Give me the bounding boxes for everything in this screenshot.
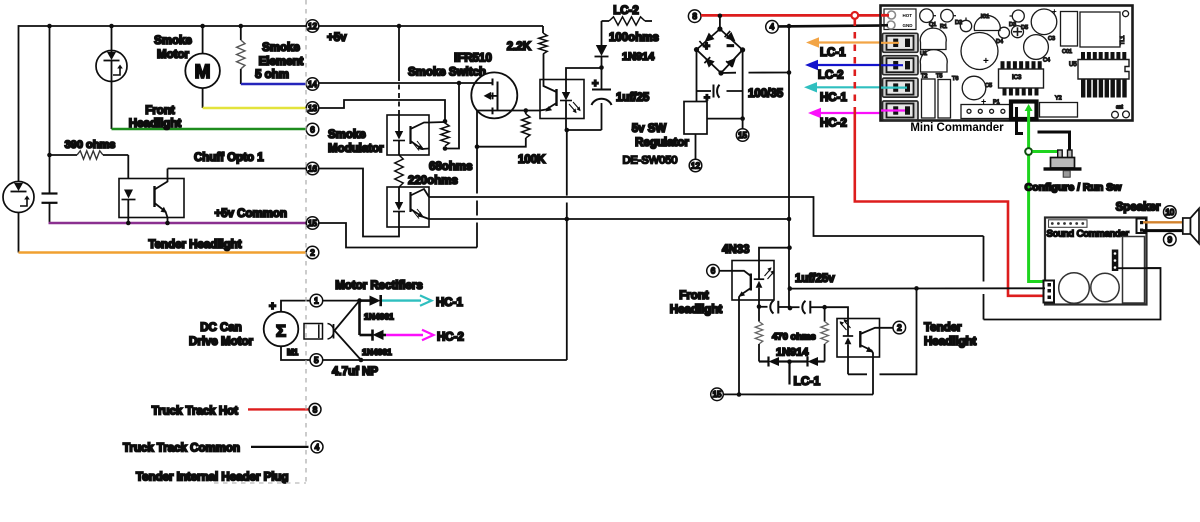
wire truck track hot red [248, 408, 309, 410]
opto U-smoke-mod-1 LED [398, 114, 400, 131]
board T2 T5 rects [922, 79, 936, 118]
svg-text:Element: Element [259, 56, 304, 68]
svg-text:IFR510: IFR510 [454, 53, 492, 65]
svg-text:100ohms: 100ohms [609, 32, 659, 44]
wire long collector bus [429, 197, 984, 236]
terminal pin 9 [1164, 233, 1177, 246]
wire mosfet bottom [477, 110, 540, 112]
connector LC-2 jack [883, 56, 919, 75]
svg-text:Smoke: Smoke [154, 35, 192, 47]
svg-text:Tender Headlight: Tender Headlight [148, 239, 241, 251]
board Sound Commander outline [1045, 218, 1147, 305]
svg-text:DE-SW050: DE-SW050 [622, 155, 677, 167]
capacitor C-left [42, 194, 58, 203]
bridge diode TR [726, 32, 736, 42]
arrow HC-2 [819, 112, 902, 114]
svg-text:+: + [1052, 7, 1057, 16]
junction dot caps right [822, 305, 827, 310]
svg-text:LC-2: LC-2 [613, 5, 639, 17]
board SC cap circles [1059, 273, 1090, 304]
board config connector [1011, 102, 1037, 120]
arrow LC-1 [817, 41, 902, 43]
svg-text:Regulator: Regulator [635, 137, 689, 149]
opto U-chuff LED [124, 190, 133, 199]
resistor R-390-ohms [49, 26, 51, 194]
svg-text:HC-1: HC-1 [436, 297, 463, 309]
board cap C3 [1031, 9, 1057, 35]
board SC speaker connector [1137, 219, 1147, 234]
terminal pin 2 [306, 246, 319, 259]
connector HC-2 jack [883, 101, 919, 120]
junction dot x567 y219 [565, 217, 570, 222]
terminal pin 1 [310, 294, 323, 307]
junction dot rail y288 [788, 286, 793, 291]
wire smoke switch common drop [566, 130, 568, 196]
board dome U1b [920, 50, 947, 72]
svg-text:HC-2: HC-2 [437, 332, 464, 344]
opto U-chuff phototransistor [153, 186, 155, 207]
junction dot 68ohm top [443, 119, 448, 124]
wire pin13 branch [319, 100, 445, 121]
junction dot LC1 [787, 359, 792, 364]
terminal pin 14 [306, 78, 319, 91]
wire front-headlight drop [111, 81, 113, 129]
wire +5v top rail [19, 25, 307, 27]
svg-text:LC-1: LC-1 [820, 47, 846, 59]
svg-text:TL1: TL1 [1120, 36, 1126, 45]
junction dot A [47, 24, 52, 29]
wire 390ohm to chuff opto [127, 155, 129, 179]
board dome U1a [920, 28, 946, 49]
capacitor C-1uf25v-A [759, 306, 768, 308]
arrow LC-2 [816, 64, 902, 66]
svg-text:D5: D5 [1021, 25, 1028, 31]
terminal pin 10 [1164, 206, 1177, 219]
opto U-smoke-mod-1 phototransistor [409, 126, 411, 144]
capacitor C-1uf25v-B [790, 306, 800, 308]
svg-text:D4: D4 [996, 39, 1003, 45]
svg-text:470 ohms: 470 ohms [772, 332, 816, 343]
capacitor C-1uf25 [601, 68, 603, 90]
opto U3 phototransistor [555, 89, 557, 106]
svg-text:−: − [727, 41, 734, 53]
svg-text:4: 4 [770, 23, 775, 32]
resistor R-68-ohms [441, 123, 449, 146]
terminal pin 12 [306, 20, 319, 33]
board cap D3 [1012, 10, 1024, 22]
opto U-chuff box [119, 179, 184, 218]
wire pin14 to gate [319, 82, 459, 84]
svg-text:Front: Front [679, 290, 709, 302]
svg-text:2: 2 [310, 248, 315, 257]
terminal pin 13 [306, 102, 319, 115]
svg-text:100K: 100K [518, 154, 546, 166]
svg-text:HC-1: HC-1 [820, 92, 847, 104]
junction dot led cathode y306 [757, 304, 762, 309]
wire cap diagonals [335, 301, 360, 331]
wire truck track common [251, 446, 309, 448]
svg-text:M: M [195, 62, 211, 83]
svg-text:GND: GND [903, 23, 914, 28]
board cap D4 D5 [999, 27, 1010, 38]
svg-text:T6: T6 [952, 76, 958, 82]
opto U-smoke-mod-1 box [387, 115, 429, 155]
board SC left connector [1044, 281, 1055, 303]
svg-text:HOT: HOT [903, 13, 913, 18]
board power input header HOT GND [884, 9, 916, 30]
svg-text:15: 15 [308, 219, 317, 228]
opto U3 LED [565, 80, 567, 93]
svg-text:T2: T2 [921, 74, 927, 80]
svg-text:Smoke: Smoke [328, 129, 366, 141]
wire overlays into connectors [881, 14, 889, 17]
connector LC-1 jack [883, 33, 919, 52]
smoke motor M circle [185, 54, 220, 89]
wire green to switch [1032, 150, 1060, 153]
svg-text:Motor: Motor [157, 49, 189, 61]
opto U-smoke-mod-2 LED [398, 187, 400, 202]
junction dot y288 x916 [914, 286, 919, 291]
wire red feed solid [855, 110, 1045, 296]
junction dot B [109, 24, 114, 29]
terminal pin 4 bottom [311, 441, 323, 453]
svg-text:9: 9 [1168, 235, 1173, 244]
board cap D1 [960, 20, 971, 31]
wire +5v to 2.2K [319, 25, 543, 27]
svg-text:Truck Track Hot: Truck Track Hot [152, 406, 238, 418]
wire header bus overlay [1117, 267, 1161, 269]
board big cap C2 [961, 33, 998, 70]
wire +5v common purple [49, 222, 307, 224]
wire caps to tender opto [825, 307, 848, 318]
red feed node [851, 12, 858, 19]
terminal pin 8 top [688, 10, 701, 23]
wire track common black [779, 25, 891, 26]
capacitor C-4.7uf [304, 324, 323, 340]
bridge rectifier BR1 [697, 29, 743, 73]
LED D-front-headlight symbol [96, 26, 127, 82]
svg-text:LC-1: LC-1 [794, 374, 821, 388]
resistor R-470-right [824, 307, 826, 321]
wire smoke element blue to pin 14 [241, 83, 306, 86]
mosfet Q-IFR510 [471, 72, 517, 118]
speaker icon [1183, 218, 1191, 234]
junction dot 1N914 cathode [599, 65, 604, 70]
wire config switch black [1038, 132, 1070, 152]
svg-text:68ohms: 68ohms [429, 161, 472, 173]
svg-text:5 ohm: 5 ohm [255, 69, 289, 81]
bridge diode BR [727, 58, 737, 68]
terminal pin 8 bottom [309, 403, 321, 415]
svg-text:4N33: 4N33 [722, 244, 750, 256]
regulator U-DE-SW050 box [684, 102, 707, 135]
board SC 3pin header [1112, 250, 1119, 272]
svg-text:C3: C3 [1048, 36, 1055, 42]
capacitor C-100-35 [697, 90, 712, 92]
junction dot x567 y130 [565, 128, 570, 133]
svg-text:Motor Rectifiers: Motor Rectifiers [335, 280, 423, 292]
wire long emitter bus [429, 218, 789, 220]
junction dot rail y72 [787, 70, 792, 75]
resistor R-220-ohms [395, 155, 403, 187]
bridge diode TL [705, 33, 715, 43]
wire HC2 branch [358, 301, 361, 335]
resistor R-100K [525, 111, 527, 115]
board cap C01 rect [1061, 12, 1078, 47]
wire pin6 to 4N33 [720, 270, 733, 272]
wire bridge bottom to rail [721, 72, 736, 74]
diode D-1N914-LC1-a [767, 357, 769, 367]
wire bridge left rail [696, 50, 698, 102]
svg-text:HC-2: HC-2 [820, 118, 847, 130]
svg-text:5: 5 [314, 356, 319, 365]
diode D-1N914-LC1-b [790, 360, 808, 362]
resistor R-LC2-100ohms [602, 20, 610, 22]
svg-text:15: 15 [738, 131, 747, 140]
svg-text:1uf/25v: 1uf/25v [795, 273, 835, 285]
svg-text:Tender Internal Header Plug: Tender Internal Header Plug [136, 472, 289, 484]
wire speaker black [1143, 229, 1183, 232]
wire tender led return [880, 288, 917, 374]
resistor R-2.2K [542, 26, 544, 33]
svg-text:12: 12 [691, 161, 700, 170]
junction dot rail y219 [787, 217, 792, 222]
wire track hot red [701, 14, 890, 17]
svg-text:220ohms: 220ohms [408, 175, 458, 187]
svg-text:1N4001: 1N4001 [362, 347, 392, 357]
wire pin15 to mosfet source [319, 223, 477, 248]
terminal pin 2 tender [893, 321, 906, 334]
board cap C4 [1024, 35, 1049, 60]
terminal pin 6 front [707, 265, 720, 278]
wire smoke motor yellow to pin 13 [203, 107, 306, 109]
wire tender led cathode [847, 357, 849, 374]
wire pin16 to opto2 LED [319, 169, 399, 237]
dashed boundary tender plug [305, 0, 307, 486]
junction dot 390ohm branch [47, 153, 52, 158]
svg-text:16: 16 [308, 164, 317, 173]
wire chuff opto 1 to pin 16 [168, 168, 307, 170]
opto U-4N33 LED [758, 261, 760, 280]
svg-text:1uf/25: 1uf/25 [616, 92, 650, 104]
svg-text:Speaker: Speaker [1116, 202, 1161, 214]
junction dot emitter y394 [737, 392, 742, 397]
wire 1uf bus to sound commander [790, 287, 1045, 289]
svg-text:IC1: IC1 [981, 14, 990, 20]
svg-text:4.7uf NP: 4.7uf NP [332, 366, 378, 378]
board ant holes [1112, 111, 1119, 118]
wire tender headlight orange [19, 251, 307, 253]
opto U-tender box [837, 319, 880, 358]
arrow HC-1 [815, 86, 902, 88]
svg-text:Headlight: Headlight [924, 336, 977, 348]
wire bridge right rail [742, 50, 744, 129]
wire front headlight green [112, 128, 307, 130]
smoke motor M1 drop wire [202, 26, 204, 54]
connector HC-1 jack [883, 78, 919, 97]
arrow HC-1 motor [382, 299, 421, 301]
svg-text:14: 14 [308, 80, 317, 89]
svg-text:12: 12 [308, 22, 317, 31]
svg-text:100/35: 100/35 [748, 88, 784, 100]
svg-text:IC3: IC3 [1012, 75, 1022, 81]
svg-text:Q1: Q1 [929, 22, 936, 28]
terminal pin 6 [306, 123, 319, 136]
svg-text:Modulator: Modulator [328, 143, 384, 155]
svg-text:+: + [703, 39, 710, 53]
board IC1 dome [974, 16, 1000, 31]
svg-text:Chuff Opto 1: Chuff Opto 1 [194, 152, 264, 164]
svg-text:Headlight: Headlight [670, 304, 723, 316]
wire speaker orange [1143, 221, 1183, 223]
junction dot motor bottom [359, 358, 364, 363]
wire pin15 bottom [723, 393, 873, 395]
opto U-tender LED [847, 319, 849, 337]
board IC3 chip [1001, 61, 1005, 69]
wire opto U3 LED cathode [566, 119, 602, 131]
svg-text:10: 10 [1165, 208, 1174, 217]
wire left vertical rail [18, 25, 20, 252]
wire config black stub [1017, 107, 1024, 134]
smoke motor bottom lead [202, 88, 204, 108]
svg-text:T5: T5 [936, 74, 942, 80]
svg-text:6: 6 [310, 125, 315, 134]
junction dot chuff LED cathode [126, 221, 131, 226]
LED D-tender-headlight symbol [3, 182, 34, 213]
green node ring [1025, 148, 1032, 155]
wire 4N33 collector feed [759, 248, 790, 261]
svg-text:4: 4 [315, 443, 320, 452]
svg-text:8: 8 [313, 405, 318, 414]
board transistor Q2 [941, 9, 954, 22]
junction dot chuff emitter [165, 221, 170, 226]
diode D-1N4001-HC2 [371, 330, 374, 341]
terminal pin 12 regulator [689, 159, 702, 172]
wire LC-1 stub [788, 362, 790, 385]
svg-text:13: 13 [308, 104, 317, 113]
svg-text:U5: U5 [1069, 62, 1077, 68]
wire LC1 diode row [759, 360, 769, 362]
svg-text:+: + [269, 299, 276, 313]
svg-text:C5: C5 [985, 83, 992, 89]
svg-text:+5v Common: +5v Common [214, 208, 287, 220]
wire 4N33 emitter drop [738, 300, 740, 395]
board hole top right [1123, 11, 1129, 17]
svg-text:D3: D3 [1009, 22, 1016, 28]
junction dot D [239, 24, 244, 29]
board transformer T1 [1080, 12, 1120, 47]
opto U-tender phototransistor [859, 331, 861, 348]
wire config green [1029, 109, 1047, 282]
svg-text:P1: P1 [993, 100, 1000, 106]
opto U-4N33 box [732, 261, 774, 301]
board Y2 rect [1040, 103, 1078, 118]
junction dot bridge top [718, 14, 723, 19]
svg-text:C01: C01 [1062, 49, 1072, 55]
junction dot rail y247 [787, 245, 792, 250]
junction dot C [200, 24, 205, 29]
junction dot rail y308 [788, 306, 793, 311]
wire common rail [788, 26, 790, 308]
svg-text:1N4001: 1N4001 [364, 312, 394, 322]
svg-text:15: 15 [713, 390, 722, 399]
svg-text:Y2: Y2 [1055, 96, 1062, 102]
svg-text:ant: ant [1116, 105, 1124, 111]
junction dot mosfet drain [524, 108, 529, 113]
terminal pin 16 [306, 162, 319, 175]
terminal pin 15 [306, 217, 319, 230]
junction dot gate [457, 81, 462, 86]
svg-text:C4: C4 [1043, 58, 1050, 64]
svg-text:R1: R1 [940, 24, 947, 30]
terminal pin 4 top [766, 21, 779, 34]
svg-text:2.2K: 2.2K [507, 41, 532, 53]
svg-text:+5v: +5v [327, 32, 347, 44]
svg-text:Drive Motor: Drive Motor [189, 336, 253, 348]
opto U-smoke-mod-2 phototransistor [409, 192, 411, 212]
svg-text:390 ohms: 390 ohms [65, 139, 116, 151]
opto U3 box [540, 80, 584, 119]
arrow HC-2 motor [386, 334, 423, 336]
board SC right rect [1123, 237, 1145, 304]
svg-text:DC Can: DC Can [200, 322, 242, 334]
svg-text:8: 8 [692, 12, 697, 21]
svg-text:Smoke Switch: Smoke Switch [408, 67, 486, 79]
diode D-1N914-top [601, 21, 603, 45]
svg-text:Truck Track Common: Truck Track Common [123, 443, 240, 455]
opto U-4N33 phototransistor [750, 274, 752, 291]
svg-text:M1: M1 [287, 348, 299, 357]
wire motor bottom lead [281, 346, 567, 360]
board P1 header [961, 105, 1012, 119]
svg-text:1: 1 [314, 297, 319, 306]
svg-text:Mini Commander: Mini Commander [910, 122, 1004, 134]
resistor R-470-left [758, 307, 760, 322]
junction dot source node [475, 144, 480, 149]
wire red feed dashed [853, 20, 856, 111]
svg-text:+: + [983, 56, 989, 67]
terminal pin 15 bottom [711, 388, 724, 401]
wire opto U3 LED anode [566, 68, 602, 80]
svg-text:Smoke: Smoke [262, 42, 300, 54]
svg-text:Sound Commander: Sound Commander [1047, 229, 1129, 240]
terminal pin 15 regulator [736, 129, 749, 142]
board transistor Q1 [920, 9, 934, 23]
board SC header row [1049, 220, 1088, 228]
board Mini Commander outline [881, 6, 1133, 121]
svg-text:Σ: Σ [276, 322, 286, 341]
junction dot 68ohm bottom [443, 146, 448, 151]
svg-text:Headlight: Headlight [129, 118, 182, 130]
svg-text:1N914: 1N914 [776, 347, 809, 359]
terminal pin 5 [310, 354, 323, 367]
diode D-1N4001-HC1 [360, 299, 370, 302]
wire motor top lead [281, 301, 360, 312]
svg-text:6: 6 [711, 267, 716, 276]
resistor smoke element 5 ohm [240, 26, 242, 40]
wire tender emitter drop [872, 357, 874, 395]
bridge diode BL [705, 58, 715, 68]
svg-text:LC-2: LC-2 [818, 70, 844, 82]
wire smoke modulator feed [398, 26, 400, 76]
svg-text:Tender: Tender [924, 322, 962, 334]
board cap C5 [962, 76, 986, 100]
svg-text:+: + [592, 78, 598, 90]
junction dot rail top [787, 24, 792, 29]
svg-text:Front: Front [145, 105, 175, 117]
junction dot +5v branch [397, 24, 402, 29]
svg-text:Configure / Run Sw: Configure / Run Sw [1025, 182, 1123, 194]
